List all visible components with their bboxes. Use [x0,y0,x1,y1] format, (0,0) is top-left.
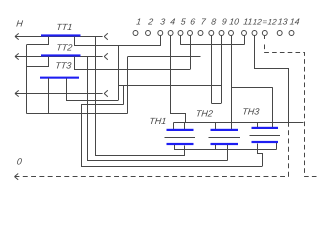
svg-text:10: 10 [229,17,240,27]
svg-text:TT3: TT3 [55,61,72,71]
arrow neutral dashed input [15,174,19,180]
wire VT common bus y149.5 [174,149,277,151]
wire terminal 9 drop [221,36,223,103]
connector arrow TT3 primary output [104,90,108,96]
svg-text:12 = 12: 12 = 12 [252,18,277,27]
core TH2 [209,137,241,139]
wire terminal 8 drop [211,36,213,103]
svg-text:2: 2 [147,17,154,27]
wire bus y155.4 [95,155,185,157]
wire TT1 secondary lead left [27,37,49,45]
wire terminal 5 to 11 jumper [181,44,245,46]
wire bus y85.8 left segment [118,85,222,87]
svg-text:14: 14 [289,17,300,27]
wire TH2 secondary stub left [215,145,217,150]
wire terminal 5 stub [180,36,182,45]
winding TH1 primary (blue bar) [167,129,194,131]
label TH2 [195,109,213,119]
wire TT2 secondary lead left [27,57,49,67]
wire TH3 secondary lead left [258,144,263,167]
wire common bus y113 [27,113,128,115]
wire TT1 primary line [15,36,103,38]
wire TT2 secondary lead right [75,57,191,70]
wire TT3 secondary lead right [67,79,119,101]
svg-text:TH1: TH1 [149,116,167,126]
wire drop x95 from TT1 line [95,37,97,156]
wire branch c10 to TH3 primary [232,87,273,89]
wire bus y160.5 [87,160,228,162]
wire TH2 primary stub [215,123,217,131]
terminal circles 1-14 [133,31,294,36]
wire terminal 10 to TH2 primary [231,36,233,130]
wire dashed terminal 12b stub [264,36,266,39]
wire terminal 11 stub [244,36,246,45]
svg-text:TH2: TH2 [195,109,213,119]
wire riser to terminal 7 net [127,57,129,114]
wire dashed meter link (terminal 12b to meter) [265,45,318,177]
svg-text:13: 13 [277,17,288,27]
connector arrow TT2 primary output [104,53,108,59]
wire TH3 primary stub right [272,87,274,128]
arrow TT2 primary input [15,53,19,59]
wire TH2 secondary stub right [227,145,229,161]
wire TT3 primary line [15,93,103,95]
wire terminal 3 stub [160,36,162,46]
wire TH1 secondary stub right [184,146,186,156]
wire TT3 secondary lead left [48,78,50,114]
winding TH2 secondary (blue bar) [211,143,239,145]
wire branch x123.5 [123,86,125,105]
winding TT2 (blue bar) [41,54,81,56]
wire common return vertical [26,45,28,114]
wire terminal 6 drop [190,36,192,69]
wire TH1 secondary stub left [174,145,176,150]
label TT3 [55,61,72,71]
connector arrow TT1 primary output [104,33,108,39]
winding TT3 (blue bar) [40,77,79,79]
winding TT1 (blue bar) [41,34,81,36]
wire bus y104.6 [81,104,124,106]
winding TH2 primary (blue bar) [211,129,239,131]
terminal number labels [136,17,300,27]
wire bus y166 [81,166,262,168]
wire terminal 4 to TH1 primary [171,36,186,123]
wire TH1 primary stubs [174,123,185,131]
winding TH3 secondary (blue bar) [252,141,279,143]
winding TH3 primary (blue bar) [252,127,279,129]
label TH3 [242,107,260,117]
svg-text:TT1: TT1 [56,22,73,32]
wire drop x81 to bottom bus [81,105,83,166]
wire HV line y122.5 [174,122,304,124]
label TT2 [56,43,73,53]
wire TT2 primary line [15,56,103,58]
wire terminal 12 jog [255,36,289,123]
wire terminal 8-9 jumper [211,103,221,105]
winding TH1 secondary (blue bar) [167,143,194,145]
arrow TT1 primary input [15,33,19,39]
arrow TT3 primary input [15,90,19,96]
label TT1 [56,22,73,32]
node O (neutral label) [16,157,22,167]
svg-text:TT2: TT2 [56,43,73,53]
core TH3 [250,135,281,137]
wire TH3 secondary lead right [276,143,278,150]
svg-text:TH3: TH3 [242,107,260,117]
wire TT1 secondary lead right [75,37,161,46]
wire drop x87 from TT2 line [87,57,89,161]
wire dashed neutral line [15,123,289,177]
wire net to terminal 7 [128,56,201,58]
wire TH3 primary stub left [257,123,259,129]
wire branch riser x118 [118,46,120,100]
core TH1 [165,137,196,139]
label TH1 [149,116,167,126]
svg-text:0: 0 [16,157,22,167]
node H (phase input label) [16,19,24,29]
